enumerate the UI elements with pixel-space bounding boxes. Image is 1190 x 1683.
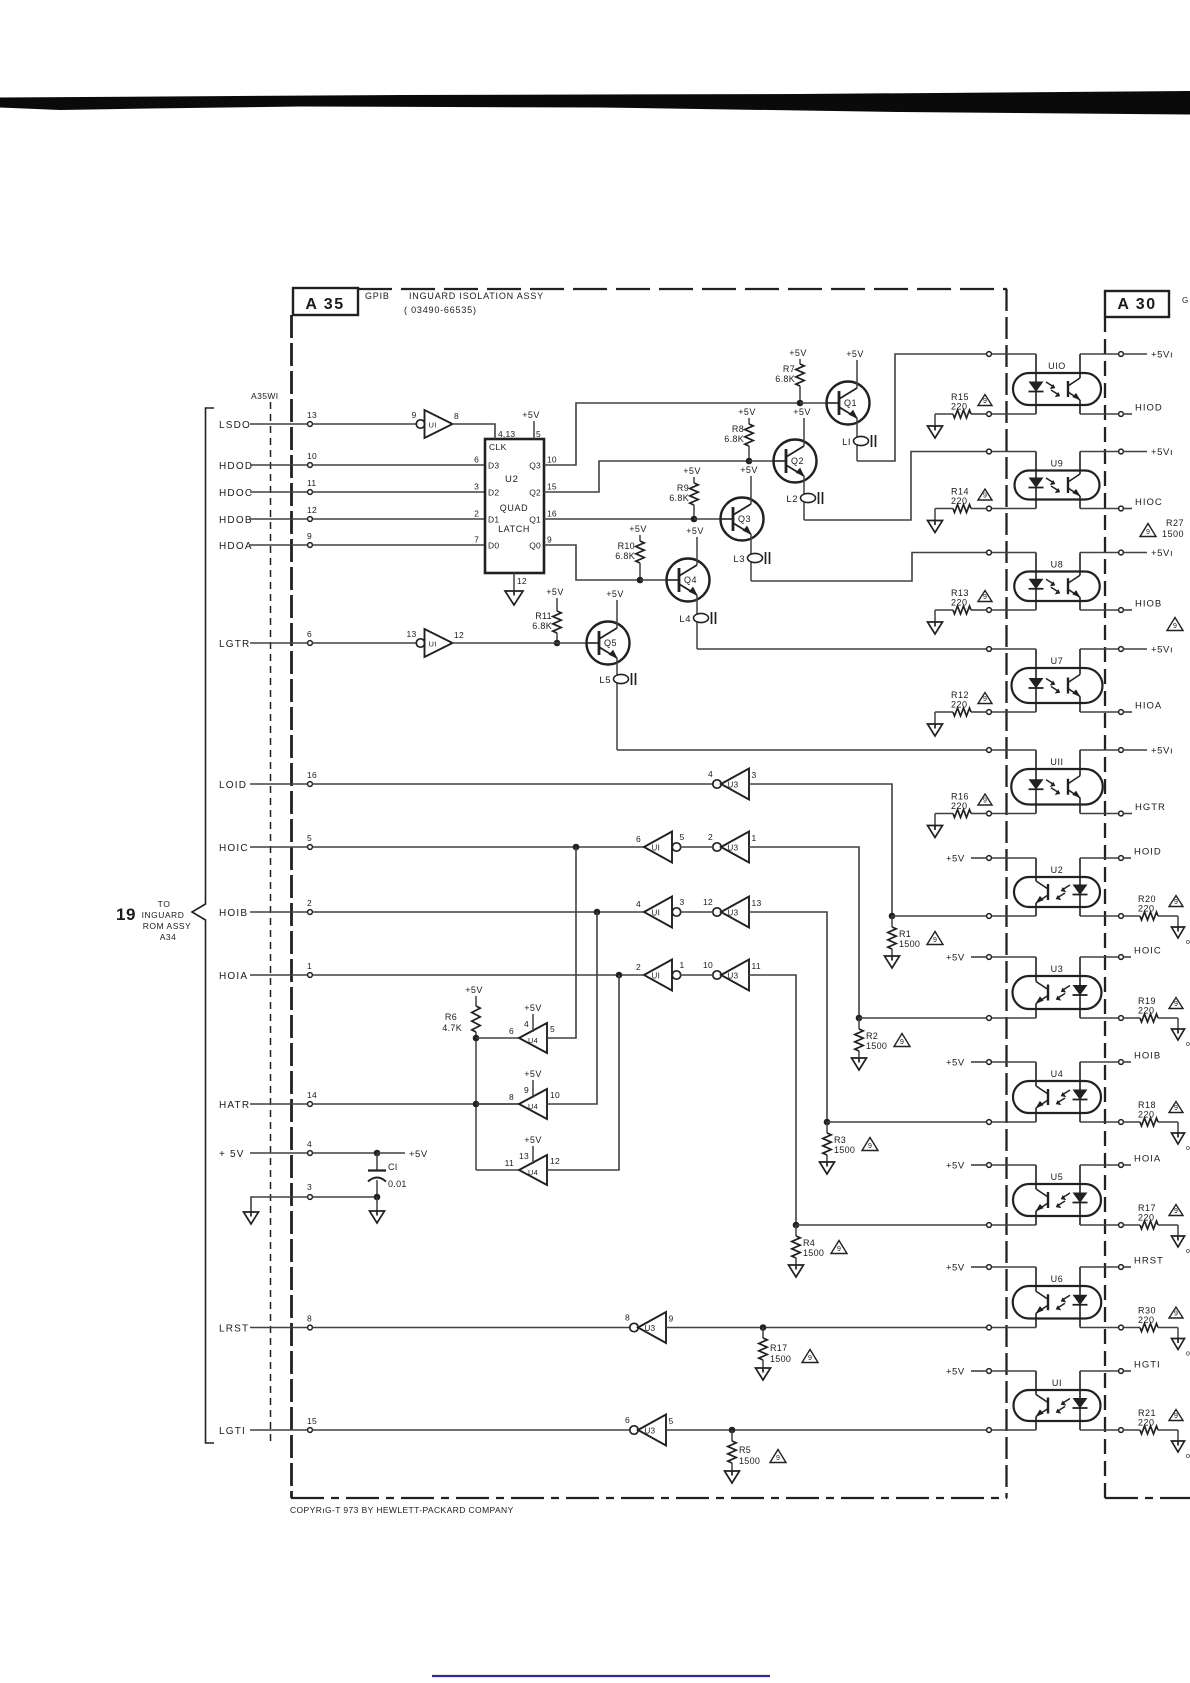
optocoupler U5 <box>1013 1184 1101 1216</box>
U9 phototransistor <box>1067 477 1069 493</box>
wire collector row <box>1080 1370 1119 1372</box>
wire Q3 emitter <box>750 534 752 581</box>
svg-text:o: o <box>1186 1351 1190 1358</box>
svg-text:9: 9 <box>669 1314 674 1324</box>
ferrite bead L4 <box>694 613 709 622</box>
svg-text:+5V: +5V <box>409 1149 428 1160</box>
terminal <box>987 914 992 919</box>
svg-text:4: 4 <box>636 899 641 909</box>
capacitor C1 0.01 <box>376 1153 378 1170</box>
ground <box>852 1058 867 1070</box>
svg-text:2: 2 <box>636 962 641 972</box>
resistor R11 6.8K <box>553 611 561 633</box>
note triangle 9 <box>978 693 992 704</box>
svg-text:5: 5 <box>550 1024 555 1034</box>
svg-text:QUAD: QUAD <box>500 503 528 513</box>
inverter U1 (LGTR) (input bubble) <box>416 639 424 647</box>
UIO LED <box>1035 354 1037 382</box>
svg-text:0.01: 0.01 <box>388 1179 407 1189</box>
note triangle 9 <box>978 489 992 500</box>
wire <box>312 423 416 425</box>
terminal <box>987 1016 992 1021</box>
wire Q3(10) to Q1 base <box>544 403 800 465</box>
terminal pin 16 <box>308 782 313 787</box>
svg-text:Q3: Q3 <box>529 461 541 471</box>
ground <box>370 1211 385 1223</box>
svg-text:+5V: +5V <box>465 985 482 995</box>
resistor R2 1500 <box>858 1018 860 1029</box>
wire anode row <box>991 1370 1036 1372</box>
resistor R17 220 <box>1123 1224 1140 1226</box>
svg-text:HIOA: HIOA <box>1135 701 1162 712</box>
svg-text:HOIB: HOIB <box>219 908 248 919</box>
svg-text:+5V: +5V <box>946 1058 965 1069</box>
svg-text:7: 7 <box>474 535 479 545</box>
net label HIOD <box>1123 413 1132 415</box>
svg-text:+5V: +5V <box>789 348 806 358</box>
svg-text:o: o <box>1186 939 1190 946</box>
svg-text:R8: R8 <box>732 424 744 434</box>
note triangle 9 <box>802 1350 818 1363</box>
svg-text:8: 8 <box>509 1092 514 1102</box>
svg-text:LRST: LRST <box>219 1324 249 1335</box>
junction R3 <box>824 1119 831 1126</box>
svg-text:A 30: A 30 <box>1117 296 1156 313</box>
A30 border bottom (dashed) <box>1105 1497 1190 1499</box>
svg-text:R30: R30 <box>1138 1306 1156 1316</box>
junction +5V/C1 <box>374 1150 381 1157</box>
U5 LED <box>1079 1165 1081 1193</box>
wire emitter row <box>1080 915 1119 917</box>
ground <box>1177 916 1179 927</box>
wire Q1(16) to Q3 base <box>544 518 694 520</box>
svg-text:+5V: +5V <box>946 1161 965 1172</box>
svg-text:D3: D3 <box>488 461 499 471</box>
optocoupler U3 <box>1013 976 1102 1009</box>
U6 phototransistor <box>1035 1267 1037 1291</box>
svg-text:1500: 1500 <box>739 1456 760 1466</box>
wire <box>312 1152 374 1154</box>
svg-text:+5Vı: +5Vı <box>1151 548 1173 559</box>
svg-text:9: 9 <box>868 1143 872 1150</box>
U7 photon arrows <box>1046 679 1059 692</box>
wire R7 junction to Q1 base <box>800 402 826 404</box>
svg-text:12: 12 <box>307 505 317 515</box>
U6 photon arrows <box>1057 1295 1070 1308</box>
U3 photon arrows <box>1057 986 1070 999</box>
UII photon arrows <box>1046 780 1059 793</box>
svg-text:+5V: +5V <box>946 953 965 964</box>
wire <box>639 563 641 580</box>
svg-text:9: 9 <box>983 594 987 601</box>
wire Q0(9) to Q4 base <box>544 545 640 580</box>
svg-text:+5V: +5V <box>524 1135 541 1145</box>
U4 LED <box>1079 1062 1081 1090</box>
ground <box>934 610 936 622</box>
net label HOIB <box>1123 1061 1131 1063</box>
terminal pin 14 <box>308 1102 313 1107</box>
wire anode row <box>991 451 1036 453</box>
svg-text:+5Vı: +5Vı <box>1151 350 1173 361</box>
wire LGTI to U1 row <box>666 1429 987 1431</box>
svg-text:220: 220 <box>951 700 968 710</box>
wire +5V1 stub <box>1123 451 1147 453</box>
wire pin3 left to ground <box>251 1197 308 1212</box>
wire cathode row <box>991 1224 1036 1226</box>
U7 phototransistor <box>1067 678 1069 694</box>
ground <box>1177 1122 1179 1133</box>
svg-text:+5V: +5V <box>846 349 863 359</box>
inverter U4 pins 6/4/5 <box>519 1023 547 1053</box>
wire anode row <box>991 1266 1036 1268</box>
wire <box>312 846 644 848</box>
wire pin3 to C1 <box>312 1196 377 1198</box>
transistor Q5 <box>587 622 630 665</box>
wire gate output to R3 <box>749 912 828 1122</box>
ground <box>789 1265 804 1277</box>
svg-text:UIO: UIO <box>1048 361 1066 371</box>
svg-text:R16: R16 <box>951 792 969 802</box>
wire collector row <box>1080 1266 1119 1268</box>
svg-text:4: 4 <box>708 769 713 779</box>
wire U4-11 input <box>476 1169 519 1171</box>
wire collector row <box>1080 353 1119 355</box>
wire collector row <box>1080 749 1119 751</box>
svg-text:o: o <box>1186 1453 1190 1460</box>
resistor R13 220 <box>971 609 987 611</box>
svg-text:220: 220 <box>1138 1006 1155 1016</box>
U7 LED <box>1035 649 1037 679</box>
wire Q5 emitter <box>616 658 618 750</box>
svg-text:R21: R21 <box>1138 1408 1156 1418</box>
terminal <box>987 608 992 613</box>
svg-text:L5: L5 <box>599 675 611 686</box>
wire <box>748 446 750 461</box>
terminal pin 6 <box>308 641 313 646</box>
svg-text:220: 220 <box>1138 1315 1155 1325</box>
quad latch U2 <box>485 439 544 573</box>
U3 LED <box>1079 957 1081 986</box>
resistor R4 1500 <box>795 1225 797 1236</box>
note triangle 9 <box>862 1138 878 1151</box>
svg-text:D2: D2 <box>488 488 499 498</box>
optocoupler UIO <box>1013 373 1101 405</box>
terminal <box>987 1163 992 1168</box>
svg-text:HGTI: HGTI <box>1134 1360 1161 1371</box>
wire U1-U3 link HOIC <box>680 846 713 848</box>
wire cathode row <box>991 1121 1036 1123</box>
svg-text:Q5: Q5 <box>604 638 617 648</box>
svg-text:6.8K: 6.8K <box>724 434 744 444</box>
svg-text:9: 9 <box>1174 1208 1178 1215</box>
wire emitter row <box>1080 1429 1119 1431</box>
svg-text:+5V: +5V <box>793 407 810 417</box>
terminal <box>987 1120 992 1125</box>
net label HRST <box>1123 1266 1131 1268</box>
optocoupler UII <box>1011 769 1103 805</box>
svg-text:A35WI: A35WI <box>251 391 279 401</box>
ferrite bead L3 <box>748 553 763 562</box>
svg-text:9: 9 <box>983 493 987 500</box>
svg-text:15: 15 <box>547 482 557 492</box>
wire L1 to U10 anode row <box>857 354 987 461</box>
svg-text:3: 3 <box>752 770 757 780</box>
svg-text:+5V: +5V <box>524 1069 541 1079</box>
svg-text:13: 13 <box>519 1151 529 1161</box>
wire emitter row <box>1080 813 1119 815</box>
wire cathode row <box>991 711 1036 713</box>
wire +5V1 stub <box>1123 648 1147 650</box>
ground <box>934 509 936 521</box>
svg-text:6: 6 <box>625 1415 630 1425</box>
terminal pin 15 <box>308 1428 313 1433</box>
junction R10/base <box>637 577 644 584</box>
wire cathode row <box>991 915 1036 917</box>
wire gate output to R2 <box>749 847 860 1018</box>
junction HOIA/U4-12 <box>616 972 623 979</box>
svg-text:HDOD: HDOD <box>219 461 253 472</box>
terminal <box>1119 1265 1124 1270</box>
terminal pin 5 <box>308 845 313 850</box>
svg-text:HIOC: HIOC <box>1135 497 1163 508</box>
svg-text:UI: UI <box>1052 1378 1062 1388</box>
wire U4-10 to HOIB <box>547 912 597 1104</box>
svg-text:U3: U3 <box>645 1427 656 1436</box>
wire cathode row <box>991 1429 1036 1431</box>
svg-text:+5V: +5V <box>683 466 700 476</box>
UIO phototransistor <box>1067 381 1069 397</box>
svg-text:R2: R2 <box>866 1031 878 1041</box>
svg-text:+5V: +5V <box>686 526 703 536</box>
wire to optocoupler emitter row <box>796 1224 987 1226</box>
junction HOIB/U4-10 <box>594 909 601 916</box>
svg-text:LATCH: LATCH <box>498 524 530 534</box>
svg-text:R19: R19 <box>1138 996 1156 1006</box>
svg-text:4: 4 <box>524 1019 529 1029</box>
inverter U4 pins 11/13/12 <box>519 1155 547 1185</box>
svg-text:8: 8 <box>307 1314 312 1324</box>
svg-text:4.7K: 4.7K <box>442 1023 462 1033</box>
svg-text:HIOD: HIOD <box>1135 403 1163 414</box>
wire anode row <box>991 648 1036 650</box>
terminal <box>1119 748 1124 753</box>
svg-text:R11: R11 <box>535 611 552 621</box>
resistor R16 220 <box>971 813 987 815</box>
svg-text:4,13: 4,13 <box>498 429 515 439</box>
svg-text:6.8K: 6.8K <box>532 621 552 631</box>
terminal <box>987 550 992 555</box>
note triangle 9 <box>831 1241 847 1254</box>
wire U4-12 to HOIA <box>547 975 619 1170</box>
svg-text:Q1: Q1 <box>844 398 857 408</box>
wire Q1 emitter <box>856 418 858 461</box>
svg-text:9: 9 <box>983 398 987 405</box>
note triangle 9 <box>978 395 992 406</box>
svg-text:1500: 1500 <box>1162 529 1184 539</box>
junction HATR/U4-8 <box>473 1101 480 1108</box>
svg-text:HOIB: HOIB <box>1134 1051 1161 1062</box>
svg-text:1500: 1500 <box>803 1248 824 1258</box>
svg-text:+5Vı: +5Vı <box>1151 746 1173 757</box>
wire anode row <box>991 749 1036 751</box>
wire emitter row <box>1080 609 1119 611</box>
svg-text:220: 220 <box>1138 1213 1155 1223</box>
svg-text:220: 220 <box>951 801 968 811</box>
svg-text:3: 3 <box>474 482 479 492</box>
ground <box>934 814 936 826</box>
svg-text:HOIA: HOIA <box>1134 1154 1161 1165</box>
svg-text:1: 1 <box>752 833 757 843</box>
svg-text:R5: R5 <box>739 1445 751 1455</box>
transistor Q4 <box>667 559 710 602</box>
terminal <box>1119 1369 1124 1374</box>
svg-text:HATR: HATR <box>219 1100 250 1111</box>
U9 photon arrows <box>1046 478 1059 491</box>
wire emitter row <box>1080 1327 1119 1329</box>
wire U4-5 to HOIC <box>547 847 576 1038</box>
svg-text:9: 9 <box>983 798 987 805</box>
U3 phototransistor <box>1035 957 1037 982</box>
svg-text:9: 9 <box>1174 1105 1178 1112</box>
resistor R1 1500 <box>891 916 893 927</box>
svg-text:R20: R20 <box>1138 894 1156 904</box>
svg-text:2: 2 <box>307 898 312 908</box>
wire R6 to U4 inputs <box>475 1032 477 1170</box>
wire emitter row <box>1080 1121 1119 1123</box>
svg-text:15: 15 <box>307 1416 317 1426</box>
ground <box>1177 1328 1179 1339</box>
svg-text:D0: D0 <box>488 541 499 551</box>
terminal <box>987 647 992 652</box>
svg-text:HDOB: HDOB <box>219 515 253 526</box>
svg-text:220: 220 <box>951 496 968 506</box>
svg-text:ROM ASSY: ROM ASSY <box>143 921 191 931</box>
inverter U3 pins 2/1 <box>713 843 721 851</box>
U4 photon arrows <box>1057 1090 1070 1103</box>
svg-text:TO: TO <box>158 899 171 909</box>
svg-text:1: 1 <box>680 960 685 970</box>
terminal <box>1119 1428 1124 1433</box>
note triangle 9 <box>1169 1205 1183 1216</box>
ferrite bead L5 <box>614 674 629 683</box>
wire <box>312 783 713 785</box>
net label HIOA <box>1123 711 1132 713</box>
wire U4-8 input <box>476 1103 519 1105</box>
terminal <box>987 710 992 715</box>
note triangle 9 <box>927 932 943 945</box>
net label HIOC <box>1123 508 1132 510</box>
wire emitter row <box>1080 1224 1119 1226</box>
svg-text:R17: R17 <box>1138 1203 1156 1213</box>
junction R2 <box>856 1015 863 1022</box>
svg-text:+5V: +5V <box>738 407 755 417</box>
svg-text:U4: U4 <box>1051 1069 1064 1079</box>
wire +5V1 stub <box>1123 552 1147 554</box>
terminal <box>1119 811 1124 816</box>
svg-text:HGTR: HGTR <box>1135 802 1166 813</box>
resistor R12 220 <box>971 711 987 713</box>
svg-text:R13: R13 <box>951 588 969 598</box>
svg-text:+5Vı: +5Vı <box>1151 447 1173 458</box>
UIO photon arrows <box>1046 382 1059 395</box>
wire to optocoupler emitter row <box>892 915 987 917</box>
junction HOIC/U4-5 <box>573 844 580 851</box>
junction R4 <box>793 1222 800 1229</box>
wire cathode row <box>991 609 1036 611</box>
terminal <box>1119 449 1124 454</box>
wire Q2(15) to Q2 base <box>544 461 749 492</box>
svg-text:+5V: +5V <box>740 465 757 475</box>
junction R5 <box>729 1427 736 1434</box>
svg-text:LGTI: LGTI <box>219 1426 246 1437</box>
svg-text:9: 9 <box>1174 899 1178 906</box>
wire to optocoupler emitter row <box>859 1017 987 1019</box>
inverter U4 pins 8/9/10 <box>519 1089 547 1119</box>
svg-text:A34: A34 <box>160 932 177 942</box>
U5 photon arrows <box>1057 1193 1070 1206</box>
note triangle 9 <box>978 591 992 602</box>
svg-text:9: 9 <box>307 531 312 541</box>
ground <box>756 1368 771 1380</box>
svg-text:9: 9 <box>776 1455 780 1462</box>
ground <box>885 956 900 968</box>
svg-text:Q3: Q3 <box>738 514 751 524</box>
terminal <box>1119 608 1124 613</box>
A30 border left (dashed) <box>1104 317 1106 1498</box>
svg-text:220: 220 <box>951 402 968 412</box>
terminal <box>987 1428 992 1433</box>
resistor R3 1500 <box>826 1122 828 1133</box>
svg-text:A 35: A 35 <box>305 296 344 313</box>
terminal <box>1119 1325 1124 1330</box>
U8 phototransistor <box>1067 578 1069 594</box>
svg-text:6.8K: 6.8K <box>615 551 635 561</box>
svg-text:INGUARD: INGUARD <box>142 910 185 920</box>
terminal <box>1119 914 1124 919</box>
terminal <box>987 856 992 861</box>
svg-text:U4: U4 <box>528 1168 538 1177</box>
svg-text:9: 9 <box>900 1039 904 1046</box>
svg-text:LOID: LOID <box>219 780 247 791</box>
svg-text:8: 8 <box>454 411 459 421</box>
svg-text:16: 16 <box>307 770 317 780</box>
svg-text:6: 6 <box>636 834 641 844</box>
svg-text:10: 10 <box>550 1090 560 1100</box>
wire R10 junction to Q4 base <box>640 579 666 581</box>
wire gate output to R1 <box>749 784 893 916</box>
svg-text:220: 220 <box>951 598 968 608</box>
terminal <box>1119 550 1124 555</box>
terminal <box>1119 1016 1124 1021</box>
ground <box>244 1212 259 1224</box>
wire cathode row <box>991 1017 1036 1019</box>
U2 LED <box>1079 858 1081 885</box>
svg-text:+ 5V: + 5V <box>219 1149 245 1160</box>
registration line (blue) <box>432 1675 770 1677</box>
junction R9/base <box>691 516 698 523</box>
svg-text:LSDO: LSDO <box>219 420 251 431</box>
svg-text:L4: L4 <box>679 614 691 625</box>
terminal <box>987 1325 992 1330</box>
svg-text:12: 12 <box>703 897 713 907</box>
svg-text:HIOB: HIOB <box>1135 599 1162 610</box>
net label HGTI <box>1123 1370 1131 1372</box>
terminal <box>1119 856 1124 861</box>
junction R11/base <box>554 640 561 647</box>
terminal <box>1119 412 1124 417</box>
svg-text:13: 13 <box>307 410 317 420</box>
terminal <box>987 412 992 417</box>
